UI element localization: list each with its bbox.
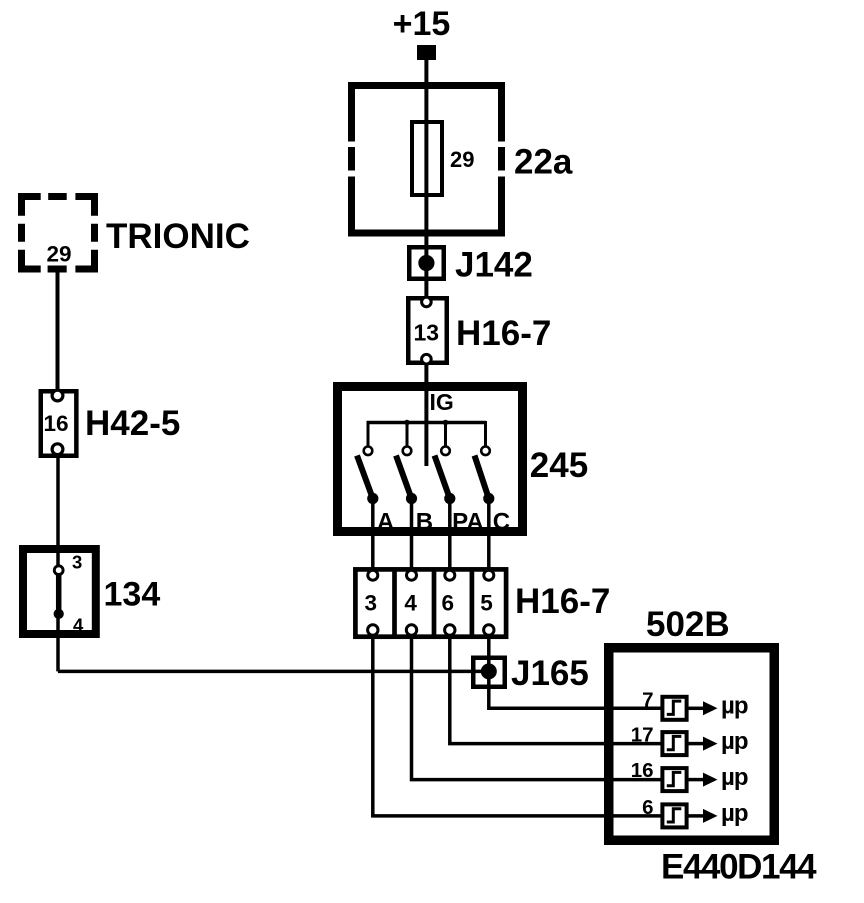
svg-text:16: 16	[44, 411, 69, 436]
svg-text:5: 5	[480, 591, 493, 616]
svg-text:J165: J165	[511, 654, 589, 693]
svg-text:6: 6	[642, 796, 653, 819]
svg-text:7: 7	[642, 688, 653, 711]
svg-text:µp: µp	[721, 693, 748, 720]
svg-text:PA: PA	[452, 508, 484, 535]
svg-text:29: 29	[450, 147, 474, 172]
svg-text:13: 13	[414, 320, 440, 346]
svg-text:134: 134	[104, 576, 161, 614]
svg-text:H42-5: H42-5	[85, 404, 180, 443]
svg-text:4: 4	[404, 591, 417, 616]
svg-text:µp: µp	[721, 764, 748, 791]
svg-text:245: 245	[530, 446, 588, 485]
svg-text:H16-7: H16-7	[456, 314, 551, 353]
svg-text:B: B	[416, 508, 433, 535]
svg-text:C: C	[493, 508, 510, 535]
svg-text:6: 6	[442, 591, 455, 616]
svg-text:IG: IG	[430, 389, 454, 415]
svg-text:502B: 502B	[646, 605, 730, 644]
svg-text:µp: µp	[721, 800, 748, 827]
svg-text:16: 16	[631, 759, 654, 782]
svg-text:J142: J142	[455, 246, 533, 285]
svg-text:H16-7: H16-7	[515, 582, 610, 621]
svg-text:29: 29	[47, 242, 72, 267]
svg-text:TRIONIC: TRIONIC	[106, 217, 250, 256]
svg-text:4: 4	[73, 615, 84, 636]
svg-text:E440D144: E440D144	[661, 848, 817, 887]
svg-text:22a: 22a	[514, 143, 573, 182]
svg-text:17: 17	[631, 724, 654, 747]
svg-text:3: 3	[365, 591, 378, 616]
svg-text:3: 3	[72, 552, 82, 573]
svg-text:µp: µp	[721, 728, 748, 755]
svg-text:A: A	[377, 508, 394, 535]
svg-text:+15: +15	[393, 5, 451, 43]
